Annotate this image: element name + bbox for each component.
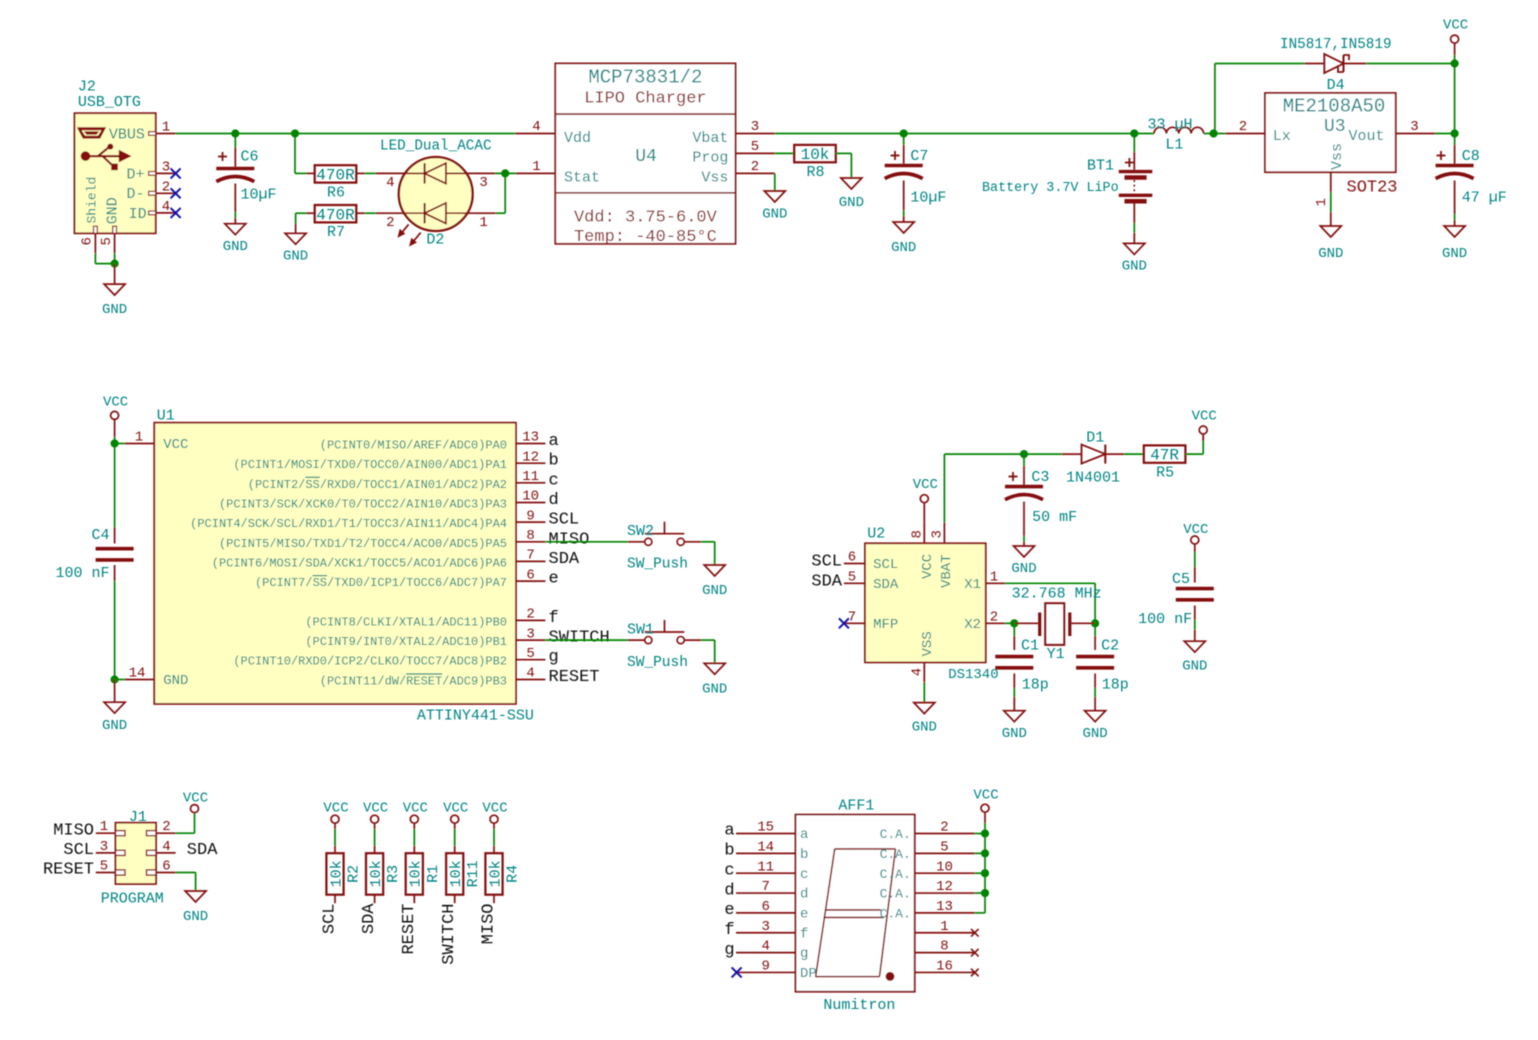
svg-text:a: a bbox=[724, 822, 734, 841]
resistor R7 470R bbox=[315, 205, 357, 222]
svg-text:SDA: SDA bbox=[811, 572, 842, 591]
capacitor C6 10uF bbox=[216, 134, 276, 224]
wire U2 X2 to crystal left bbox=[1005, 622, 1014, 624]
svg-text:10µF: 10µF bbox=[910, 190, 946, 207]
svg-text:3: 3 bbox=[761, 919, 769, 935]
svg-text:SW1: SW1 bbox=[627, 621, 654, 638]
svg-text:3: 3 bbox=[479, 175, 487, 191]
ground U1/C4 bbox=[102, 680, 127, 735]
svg-text:10: 10 bbox=[936, 859, 953, 875]
svg-text:GND: GND bbox=[283, 249, 308, 265]
svg-text:(PCINT8/CLKI/XTAL1/ADC11)PB0: (PCINT8/CLKI/XTAL1/ADC11)PB0 bbox=[305, 615, 507, 629]
svg-text:7: 7 bbox=[526, 548, 534, 564]
svg-text:ID: ID bbox=[129, 206, 147, 223]
svg-text:c: c bbox=[800, 867, 808, 883]
svg-text:b: b bbox=[724, 842, 734, 861]
svg-text:32.768 MHz: 32.768 MHz bbox=[1012, 585, 1102, 602]
unconnected mark pin 1 bbox=[971, 929, 979, 937]
ground J2 bbox=[102, 264, 127, 318]
wire rail to R6 bbox=[295, 134, 314, 174]
junction C.A. 1 bbox=[981, 829, 989, 837]
svg-text:3: 3 bbox=[162, 159, 170, 175]
wire U3 Vss to GND bbox=[1330, 192, 1332, 226]
svg-text:D+: D+ bbox=[127, 167, 145, 184]
svg-text:GND: GND bbox=[702, 583, 727, 599]
svg-text:Stat: Stat bbox=[564, 170, 600, 187]
svg-text:Vout: Vout bbox=[1348, 128, 1384, 145]
svg-text:SCL: SCL bbox=[873, 557, 898, 573]
svg-text:4: 4 bbox=[162, 199, 170, 215]
svg-text:Prog: Prog bbox=[692, 149, 728, 166]
svg-text:Vss: Vss bbox=[1329, 143, 1346, 170]
svg-text:1N4001: 1N4001 bbox=[1066, 470, 1120, 487]
svg-text:Vbat: Vbat bbox=[692, 130, 728, 147]
U1 pin 11 (c) bbox=[248, 469, 559, 492]
wire U1 SWITCH to SW1 bbox=[545, 639, 628, 641]
svg-text:AFF1: AFF1 bbox=[838, 797, 874, 814]
svg-text:5: 5 bbox=[526, 646, 534, 662]
svg-text:VCC: VCC bbox=[183, 791, 208, 807]
svg-text:D1: D1 bbox=[1086, 430, 1104, 447]
svg-text:8: 8 bbox=[526, 528, 534, 544]
svg-text:GND: GND bbox=[1082, 726, 1107, 742]
ground BT1 bbox=[1124, 243, 1145, 254]
junction J2 ground bbox=[111, 260, 119, 268]
display AFF1 Numitron bbox=[796, 797, 915, 1014]
svg-text:(PCINT0/MISO/AREF/ADC0)PA0: (PCINT0/MISO/AREF/ADC0)PA0 bbox=[320, 439, 507, 453]
svg-text:SW_Push: SW_Push bbox=[627, 557, 688, 573]
svg-text:(PCINT9/INT0/XTAL2/ADC10)PB1: (PCINT9/INT0/XTAL2/ADC10)PB1 bbox=[305, 635, 507, 649]
svg-text:R4: R4 bbox=[505, 865, 522, 883]
svg-text:SOT23: SOT23 bbox=[1347, 179, 1398, 198]
svg-text:11: 11 bbox=[757, 859, 774, 875]
U1 pin 8 (MISO) bbox=[219, 528, 589, 551]
wire R5 to VCC bbox=[1186, 434, 1204, 454]
svg-text:R1: R1 bbox=[425, 865, 442, 883]
junction U1 VCC bbox=[111, 439, 119, 447]
junction C7 bbox=[900, 129, 908, 137]
ground C2 bbox=[1085, 711, 1106, 722]
svg-text:(PCINT10/RXD0/ICP2/CLKO/TOCC7/: (PCINT10/RXD0/ICP2/CLKO/TOCC7/ADC8)PB2 bbox=[233, 655, 507, 669]
ground U3 bbox=[1320, 226, 1341, 237]
AFF1 right pin 16 bbox=[915, 959, 975, 975]
svg-text:R5: R5 bbox=[1156, 465, 1174, 482]
svg-text:MISO: MISO bbox=[549, 530, 590, 549]
svg-text:4: 4 bbox=[761, 939, 769, 955]
svg-text:3: 3 bbox=[930, 530, 946, 538]
svg-text:3: 3 bbox=[526, 626, 534, 642]
junction D4/VCC bbox=[1451, 59, 1459, 67]
wire C3 to D1 bbox=[1024, 453, 1062, 455]
svg-text:50 mF: 50 mF bbox=[1032, 509, 1077, 526]
ground SW1 bbox=[704, 663, 725, 674]
wire R7 to LED bbox=[356, 212, 399, 214]
AFF1 right pin 1 bbox=[915, 919, 975, 935]
junction X2/C1 bbox=[1010, 619, 1018, 627]
svg-text:1: 1 bbox=[100, 819, 108, 835]
svg-text:6: 6 bbox=[761, 899, 769, 915]
svg-text:9: 9 bbox=[761, 959, 769, 975]
svg-text:5: 5 bbox=[99, 237, 115, 245]
svg-text:RESET: RESET bbox=[43, 861, 94, 880]
junction U1 GND bbox=[111, 675, 119, 683]
wire VCC rail right bbox=[1454, 64, 1456, 134]
svg-text:16: 16 bbox=[936, 959, 953, 975]
svg-text:6: 6 bbox=[80, 237, 96, 245]
svg-text:1: 1 bbox=[162, 120, 170, 136]
svg-text:X2: X2 bbox=[964, 617, 981, 633]
svg-text:Battery 3.7V LiPo: Battery 3.7V LiPo bbox=[982, 181, 1119, 196]
diode D4 IN5817,IN5819 schottky bbox=[1280, 37, 1392, 94]
svg-text:SDA: SDA bbox=[360, 903, 379, 934]
resistor R4 10k bbox=[485, 853, 521, 903]
svg-text:VCC: VCC bbox=[363, 800, 388, 816]
AFF1 pin 6 (e) bbox=[724, 899, 808, 923]
connector J2 USB_OTG bbox=[75, 79, 176, 254]
svg-text:Y1: Y1 bbox=[1047, 646, 1065, 663]
U1 pin 10 (d) bbox=[219, 489, 559, 512]
svg-text:6: 6 bbox=[848, 550, 856, 566]
svg-text:e: e bbox=[800, 907, 808, 923]
svg-text:5: 5 bbox=[940, 839, 948, 855]
power VCC U2 bbox=[913, 477, 938, 522]
wire J1 pin6 to GND bbox=[176, 873, 196, 892]
resistor R11 10k bbox=[446, 853, 482, 903]
svg-text:2: 2 bbox=[990, 610, 998, 626]
svg-text:L1: L1 bbox=[1165, 137, 1183, 154]
svg-text:c: c bbox=[549, 471, 559, 490]
power VCC U1 bbox=[103, 394, 128, 443]
capacitor C8 47uF bbox=[1436, 134, 1507, 227]
wire D4 to VCC node bbox=[1366, 63, 1454, 65]
regulator U3 ME2108A50 bbox=[1226, 93, 1435, 207]
svg-text:Lx: Lx bbox=[1273, 128, 1291, 145]
svg-text:(PCINT5/MISO/TXD1/T2/TOCC4/ACO: (PCINT5/MISO/TXD1/T2/TOCC4/ACO0/ADC5)PA5 bbox=[219, 537, 507, 551]
junction VBUS R6 branch bbox=[291, 129, 299, 137]
power VCC R1 bbox=[403, 800, 428, 853]
power VCC R11 bbox=[443, 800, 468, 853]
svg-text:12: 12 bbox=[522, 449, 539, 465]
svg-text:U4: U4 bbox=[635, 147, 657, 167]
U1 pin 5 (g) bbox=[233, 646, 558, 669]
svg-text:e: e bbox=[724, 901, 734, 920]
svg-text:10k: 10k bbox=[487, 860, 504, 887]
AFF1 pin 7 (d) bbox=[724, 879, 808, 903]
wire GND to U1 pin14 bbox=[115, 679, 125, 681]
AFF1 right pin 12 bbox=[880, 879, 975, 902]
svg-text:1: 1 bbox=[135, 430, 143, 446]
junction VBUS C6 bbox=[231, 129, 239, 137]
svg-text:1: 1 bbox=[990, 570, 998, 586]
svg-text:D2: D2 bbox=[426, 231, 444, 248]
AFF1 pin 4 (g) bbox=[724, 939, 808, 963]
svg-text:10k: 10k bbox=[408, 860, 425, 887]
svg-text:47R: 47R bbox=[1150, 447, 1179, 465]
resistor R3 10k bbox=[366, 853, 402, 903]
ground C1 bbox=[1004, 711, 1025, 722]
svg-text:8: 8 bbox=[940, 939, 948, 955]
ground J1 bbox=[185, 891, 206, 902]
ground R7 bbox=[285, 233, 306, 244]
battery BT1 3.7V LiPo bbox=[982, 134, 1152, 244]
svg-text:R2: R2 bbox=[346, 865, 363, 883]
svg-text:BT1: BT1 bbox=[1087, 158, 1114, 175]
svg-text:IN5817,IN5819: IN5817,IN5819 bbox=[1280, 37, 1392, 53]
svg-text:4: 4 bbox=[386, 175, 394, 191]
wire VCC to U1 pin1 bbox=[115, 443, 125, 445]
svg-text:15: 15 bbox=[757, 820, 774, 836]
AFF1 pin 3 (f) bbox=[724, 919, 808, 943]
svg-text:MISO: MISO bbox=[480, 904, 499, 945]
no-connect D+ bbox=[171, 168, 181, 178]
junction Vout bbox=[1451, 129, 1459, 137]
wire VBUS rail bbox=[176, 133, 516, 135]
svg-text:(PCINT1/MOSI/TXD0/TOCC0/AIN00/: (PCINT1/MOSI/TXD0/TOCC0/AIN00/ADC1)PA1 bbox=[233, 458, 507, 472]
svg-text:C.A.: C.A. bbox=[880, 847, 911, 862]
svg-text:U1: U1 bbox=[157, 408, 175, 425]
U1 pin 13 (a) bbox=[320, 430, 559, 453]
svg-text:a: a bbox=[800, 827, 808, 843]
svg-text:13: 13 bbox=[936, 899, 953, 915]
wire R6 to LED bbox=[356, 172, 399, 174]
diode D1 1N4001 bbox=[1062, 430, 1124, 487]
svg-text:GND: GND bbox=[702, 682, 727, 698]
svg-text:1: 1 bbox=[940, 919, 948, 935]
svg-text:5: 5 bbox=[751, 139, 759, 155]
svg-text:C2: C2 bbox=[1101, 637, 1119, 654]
svg-text:b: b bbox=[549, 452, 559, 471]
svg-text:LIPO Charger: LIPO Charger bbox=[584, 90, 706, 109]
svg-text:GND: GND bbox=[104, 197, 121, 224]
no-connect DP bbox=[732, 967, 742, 977]
svg-text:X1: X1 bbox=[964, 577, 981, 593]
svg-text:33 µH: 33 µH bbox=[1147, 116, 1192, 133]
svg-text:(PCINT2/SS/RXD0/TOCC1/AIN01/AD: (PCINT2/SS/RXD0/TOCC1/AIN01/ADC2)PA2 bbox=[248, 478, 507, 492]
svg-text:D-: D- bbox=[127, 186, 145, 203]
U1 pin 2 (f) bbox=[305, 607, 558, 630]
svg-text:Numitron: Numitron bbox=[823, 997, 895, 1014]
svg-text:4: 4 bbox=[162, 839, 170, 855]
capacitor C2 18p bbox=[1076, 623, 1129, 710]
svg-text:d: d bbox=[724, 881, 734, 900]
svg-text:10: 10 bbox=[522, 489, 539, 505]
svg-text:(PCINT3/SCK/XCK0/T0/TOCC2/AIN1: (PCINT3/SCK/XCK0/T0/TOCC2/AIN10/ADC3)PA3 bbox=[219, 498, 507, 512]
ground U2 bbox=[914, 703, 935, 714]
svg-text:DS1340: DS1340 bbox=[948, 667, 998, 683]
wire U2 X1 to crystal right bbox=[1005, 583, 1095, 623]
svg-text:D4: D4 bbox=[1327, 77, 1345, 94]
svg-text:U2: U2 bbox=[867, 525, 885, 542]
svg-text:12: 12 bbox=[936, 879, 953, 895]
svg-text:c: c bbox=[724, 861, 734, 880]
svg-text:b: b bbox=[800, 847, 808, 863]
svg-text:18p: 18p bbox=[1102, 676, 1129, 693]
svg-text:6: 6 bbox=[162, 859, 170, 875]
svg-text:10µF: 10µF bbox=[241, 187, 277, 204]
svg-text:SCL: SCL bbox=[549, 511, 580, 530]
wire Vbat rail bbox=[775, 133, 1154, 135]
wire LED pin1 up to pin3 net bbox=[473, 173, 506, 213]
svg-text:J1: J1 bbox=[129, 809, 147, 826]
svg-text:VCC: VCC bbox=[973, 787, 998, 803]
ground C6 bbox=[225, 224, 246, 235]
svg-text:(PCINT11/dW/RESET/ADC9)PB3: (PCINT11/dW/RESET/ADC9)PB3 bbox=[320, 675, 507, 689]
AFF1 pin 15 (a) bbox=[724, 820, 808, 844]
resistor R2 10k bbox=[326, 853, 362, 903]
capacitor C4 100nF bbox=[55, 444, 133, 680]
unconnected mark pin 16 bbox=[971, 969, 979, 977]
IC U4 MCP73831/2 bbox=[515, 63, 774, 246]
svg-text:Vdd: 3.75-6.0V: Vdd: 3.75-6.0V bbox=[574, 208, 718, 227]
svg-text:SW_Push: SW_Push bbox=[627, 655, 688, 671]
capacitor C7 10uF bbox=[885, 134, 947, 223]
svg-text:VCC: VCC bbox=[163, 437, 188, 453]
svg-text:VCC: VCC bbox=[920, 554, 936, 579]
junction C.A. 4 bbox=[981, 889, 989, 897]
svg-text:SDA: SDA bbox=[187, 841, 218, 860]
power VCC R4 bbox=[482, 800, 507, 853]
svg-text:C7: C7 bbox=[910, 148, 928, 165]
svg-text:PROGRAM: PROGRAM bbox=[101, 891, 164, 908]
svg-text:100 nF: 100 nF bbox=[55, 565, 109, 582]
U1 pin 9 (SCL) bbox=[190, 508, 579, 531]
crystal Y1 32.768 MHz bbox=[1012, 585, 1102, 662]
AFF1 right pin 13 bbox=[880, 899, 975, 922]
svg-text:2: 2 bbox=[526, 607, 534, 623]
svg-text:5: 5 bbox=[100, 859, 108, 875]
svg-text:GND: GND bbox=[1002, 726, 1027, 742]
svg-text:Shield: Shield bbox=[85, 177, 100, 224]
svg-text:GND: GND bbox=[163, 673, 188, 689]
no-connect D- bbox=[171, 188, 181, 198]
svg-text:d: d bbox=[800, 887, 808, 903]
switch SW1 SW_Push bbox=[627, 620, 701, 671]
svg-text:VBUS: VBUS bbox=[109, 126, 145, 143]
svg-text:GND: GND bbox=[183, 909, 208, 925]
wire U2 VSS to GND bbox=[923, 682, 925, 703]
svg-text:10k: 10k bbox=[368, 860, 385, 887]
svg-text:RESET: RESET bbox=[549, 668, 600, 687]
capacitor C5 100nF bbox=[1138, 571, 1214, 641]
svg-text:10k: 10k bbox=[448, 860, 465, 887]
wire J1 pin2 to VCC bbox=[176, 813, 195, 834]
wire LED pin3 to Stat bbox=[473, 172, 516, 174]
svg-text:4: 4 bbox=[526, 666, 534, 682]
resistor R8 10k bbox=[794, 145, 836, 162]
svg-text:3: 3 bbox=[751, 119, 759, 135]
svg-text:LED_Dual_ACAC: LED_Dual_ACAC bbox=[380, 138, 492, 154]
svg-text:SDA: SDA bbox=[873, 577, 899, 593]
capacitor C1 18p bbox=[995, 623, 1048, 710]
svg-text:VSS: VSS bbox=[920, 631, 936, 656]
svg-text:GND: GND bbox=[102, 302, 127, 318]
U1 pin 4 (RESET) bbox=[320, 666, 600, 689]
svg-text:GND: GND bbox=[762, 207, 787, 223]
power VCC R2 bbox=[323, 800, 348, 853]
svg-text:f: f bbox=[549, 609, 559, 628]
wire Vout to VCC bbox=[1435, 133, 1455, 135]
AFF1 right pin 5 bbox=[880, 839, 975, 862]
svg-text:GND: GND bbox=[1011, 561, 1036, 577]
svg-text:7: 7 bbox=[848, 610, 856, 626]
svg-text:7: 7 bbox=[761, 879, 769, 895]
AFF1 right pin 10 bbox=[880, 859, 975, 882]
no-connect MFP bbox=[839, 618, 849, 628]
svg-text:VCC: VCC bbox=[443, 800, 468, 816]
wire VBAT up to D1 net bbox=[944, 454, 1024, 522]
svg-text:GND: GND bbox=[102, 718, 127, 734]
U1 pin 12 (b) bbox=[233, 449, 558, 472]
svg-text:C.A.: C.A. bbox=[880, 907, 911, 922]
ground SW2 bbox=[704, 565, 725, 576]
svg-text:2: 2 bbox=[940, 820, 948, 836]
svg-text:2: 2 bbox=[751, 159, 759, 175]
AFF1 pin 9 (DP) bbox=[736, 959, 817, 983]
wire SW1 to GND bbox=[701, 640, 715, 663]
svg-text:4: 4 bbox=[910, 668, 926, 676]
svg-text:RESET: RESET bbox=[400, 904, 419, 955]
svg-text:2: 2 bbox=[162, 819, 170, 835]
svg-text:1: 1 bbox=[532, 159, 540, 175]
svg-text:SWITCH: SWITCH bbox=[440, 904, 459, 965]
svg-text:C.A.: C.A. bbox=[880, 867, 911, 882]
junction C.A. 2 bbox=[981, 849, 989, 857]
svg-text:GND: GND bbox=[1122, 259, 1147, 275]
svg-text:14: 14 bbox=[757, 839, 774, 855]
wire U1 MISO to SW2 bbox=[545, 541, 628, 543]
resistor R6 470R bbox=[315, 165, 357, 182]
svg-text:5: 5 bbox=[848, 570, 856, 586]
svg-text:VBAT: VBAT bbox=[939, 554, 955, 588]
svg-text:VCC: VCC bbox=[482, 800, 507, 816]
wire to D4 branch bbox=[1204, 64, 1305, 134]
svg-text:C4: C4 bbox=[91, 527, 109, 544]
svg-text:2: 2 bbox=[1239, 119, 1247, 135]
svg-text:(PCINT7/SS/TXD0/ICP1/TOCC6/ADC: (PCINT7/SS/TXD0/ICP1/TOCC6/ADC7)PA7 bbox=[255, 576, 507, 590]
svg-text:11: 11 bbox=[522, 469, 539, 485]
svg-text:MFP: MFP bbox=[873, 617, 898, 633]
svg-text:18p: 18p bbox=[1022, 676, 1049, 693]
U1 pin 3 (SWITCH) bbox=[305, 626, 609, 649]
svg-text:R7: R7 bbox=[327, 224, 345, 241]
svg-text:GND: GND bbox=[223, 239, 248, 255]
svg-text:3: 3 bbox=[100, 839, 108, 855]
svg-text:g: g bbox=[800, 946, 808, 962]
svg-text:GND: GND bbox=[891, 240, 916, 256]
IC U1 ATTINY441-SSU bbox=[125, 408, 534, 725]
svg-text:Temp: -40-85°C: Temp: -40-85°C bbox=[574, 228, 717, 247]
ground U4 Vss bbox=[764, 191, 785, 202]
svg-text:1: 1 bbox=[1314, 198, 1330, 206]
svg-text:Vss: Vss bbox=[701, 170, 728, 187]
svg-text:C5: C5 bbox=[1172, 571, 1190, 588]
svg-text:SW2: SW2 bbox=[627, 523, 654, 540]
svg-text:9: 9 bbox=[526, 508, 534, 524]
svg-text:3: 3 bbox=[1410, 119, 1418, 135]
power VCC J1 bbox=[183, 791, 208, 813]
svg-text:SDA: SDA bbox=[549, 550, 580, 569]
svg-text:ME2108A50: ME2108A50 bbox=[1283, 96, 1386, 118]
power VCC AFF1 bbox=[973, 787, 998, 833]
junction LED outputs bbox=[501, 169, 509, 177]
svg-text:C1: C1 bbox=[1021, 637, 1039, 654]
svg-text:R3: R3 bbox=[385, 865, 402, 883]
svg-text:VCC: VCC bbox=[1443, 17, 1468, 33]
ground C5 bbox=[1184, 641, 1205, 652]
no-connect ID bbox=[171, 208, 181, 218]
svg-text:470R: 470R bbox=[316, 167, 355, 185]
ground R8 bbox=[841, 178, 862, 189]
